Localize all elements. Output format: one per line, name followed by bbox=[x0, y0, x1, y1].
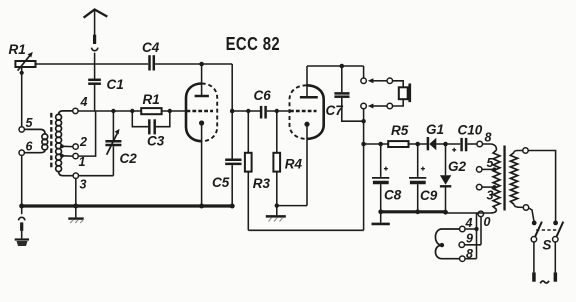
svg-text:4: 4 bbox=[80, 95, 88, 109]
svg-text:G1: G1 bbox=[426, 122, 444, 137]
chassis ground (PSU) bbox=[372, 213, 390, 224]
svg-text:R4: R4 bbox=[285, 157, 303, 172]
wire winding bottom to terminal 0 bbox=[478, 210, 497, 214]
node 4 bbox=[73, 95, 88, 114]
svg-text:3: 3 bbox=[80, 178, 87, 192]
wire node1 to grid rail bbox=[78, 111, 95, 156]
capacitor C5 bbox=[212, 111, 242, 205]
transformer core bbox=[503, 146, 505, 211]
svg-text:G2: G2 bbox=[448, 159, 467, 174]
wire bus to terminal 0 bbox=[446, 212, 479, 214]
jack lower terminal bbox=[361, 103, 367, 109]
svg-text:S: S bbox=[542, 238, 551, 253]
svg-text:R1: R1 bbox=[9, 42, 26, 57]
wire jack lower to rail bbox=[361, 109, 366, 231]
resistor R1 (grid leak) bbox=[130, 92, 172, 114]
earth symbol bbox=[15, 240, 29, 247]
earphone bbox=[393, 81, 412, 106]
svg-text:2: 2 bbox=[79, 135, 87, 149]
node 6 bbox=[19, 140, 34, 156]
wire top feedback rail bbox=[36, 64, 233, 111]
svg-text:4: 4 bbox=[465, 216, 473, 230]
coil core (dashed) bbox=[50, 113, 52, 170]
U1b anode bbox=[300, 66, 318, 97]
earth connection (plug and socket) bbox=[19, 206, 25, 238]
wire cathode2 to ground bbox=[275, 126, 307, 208]
antenna bbox=[84, 10, 108, 80]
svg-text:C8: C8 bbox=[384, 188, 402, 203]
mains ~ symbol bbox=[540, 281, 549, 284]
svg-text:5: 5 bbox=[26, 116, 34, 130]
node anode1 junction bbox=[230, 109, 235, 114]
resistor R4 (grid leak 2) bbox=[273, 109, 302, 215]
U1a cathode bbox=[199, 120, 204, 204]
U1b grid (dashed) bbox=[290, 110, 317, 112]
variable capacitor C2 bbox=[79, 109, 138, 176]
svg-text:5: 5 bbox=[487, 156, 495, 170]
strap loops 4-9-8 bbox=[435, 229, 459, 259]
svg-text:R1: R1 bbox=[143, 92, 160, 107]
tap 3 bbox=[476, 184, 496, 202]
main ground bus bbox=[19, 204, 235, 209]
svg-text:C9: C9 bbox=[420, 188, 438, 203]
transformer T1 terminal 8 (top) bbox=[477, 131, 497, 151]
svg-text:6: 6 bbox=[26, 140, 34, 154]
coil L1 primary (antenna winding 5-6) bbox=[24, 129, 47, 152]
capacitor C7 bbox=[326, 64, 364, 121]
capacitor C3 (parallel with grid leak) bbox=[132, 111, 170, 149]
ground bus (PSU) bbox=[378, 209, 448, 214]
secondary top lead bbox=[514, 148, 556, 223]
wire anode2 rail bbox=[307, 66, 364, 78]
switch S pole 2 bbox=[553, 221, 564, 243]
node 1 (tap strapped to grid line) bbox=[60, 153, 86, 169]
wire DC rail bbox=[364, 143, 477, 145]
svg-text:C7: C7 bbox=[326, 103, 345, 118]
phone plug upper (arrow) bbox=[368, 78, 393, 84]
triode U1b (ECC82 second half) envelope bbox=[290, 85, 324, 139]
terminal 8 (mains tap) bbox=[460, 247, 477, 261]
jack upper terminal bbox=[361, 78, 367, 84]
U1b cathode bbox=[304, 122, 309, 127]
capacitor C4 bbox=[142, 40, 160, 71]
tap 5 bbox=[476, 156, 496, 172]
mains pin 1 bbox=[532, 242, 536, 282]
diode G1 (rectifier) bbox=[426, 122, 444, 150]
capacitor C1 bbox=[88, 77, 124, 111]
svg-text:9: 9 bbox=[466, 232, 473, 246]
capacitor C9 (electrolytic) bbox=[409, 142, 438, 211]
chassis ground (main bus) bbox=[68, 206, 83, 223]
resistor R5 (filter) bbox=[388, 123, 409, 147]
diode G2 (stabilizer) bbox=[440, 142, 467, 212]
chassis ground (R4 / cathode2) bbox=[266, 216, 286, 221]
svg-text:C3: C3 bbox=[147, 134, 165, 149]
svg-text:3: 3 bbox=[487, 189, 494, 203]
triode U1a (ECC82 first half) envelope bbox=[186, 84, 217, 142]
svg-text:R3: R3 bbox=[253, 176, 271, 191]
svg-text:C2: C2 bbox=[120, 151, 138, 166]
node 5 bbox=[19, 116, 34, 132]
svg-text:C1: C1 bbox=[107, 77, 124, 92]
svg-text:C4: C4 bbox=[142, 40, 160, 55]
phone plug lower (arrow) bbox=[368, 103, 393, 109]
capacitor C8 (electrolytic) bbox=[372, 142, 402, 211]
wire node6 to ground bus bbox=[21, 155, 23, 204]
wire selector vertical bbox=[476, 213, 478, 259]
secondary bottom lead bbox=[514, 204, 534, 222]
wire grid rail bbox=[78, 110, 186, 112]
wire pot to node 5 bbox=[20, 67, 24, 127]
U1a grid (dashed) bbox=[187, 110, 214, 112]
terminal 9 bbox=[459, 217, 481, 248]
wire B+ feed to R3 bbox=[248, 229, 363, 231]
mains pin 2 bbox=[554, 242, 558, 282]
switch S pole 1 bbox=[531, 221, 542, 243]
wire node3 to bus bbox=[75, 178, 77, 204]
transformer secondary winding bbox=[510, 153, 517, 205]
terminal 4 bbox=[460, 216, 479, 232]
U1a anode bbox=[195, 62, 209, 96]
svg-text:R5: R5 bbox=[391, 123, 409, 138]
svg-text:C5: C5 bbox=[212, 175, 230, 190]
switch gang link (dashed) bbox=[536, 229, 558, 231]
capacitor C6 (coupling) bbox=[254, 88, 290, 119]
svg-text:ECC 82: ECC 82 bbox=[226, 33, 281, 54]
capacitor C10 bbox=[452, 123, 483, 152]
svg-text:8: 8 bbox=[466, 247, 473, 261]
transformer T1 primary winding bbox=[493, 150, 500, 210]
resistor R3 (anode load) bbox=[245, 109, 271, 231]
node 2 (unused tap) bbox=[60, 135, 87, 149]
resistor R1 (regeneration potentiometer) bbox=[9, 42, 36, 71]
wire anode1 to C6 bbox=[232, 110, 260, 112]
svg-text:1: 1 bbox=[79, 155, 86, 169]
coil L2 secondary (tuned winding 4-1-2-3) bbox=[56, 111, 73, 176]
node 3 bbox=[73, 173, 86, 192]
svg-text:0: 0 bbox=[484, 215, 491, 229]
svg-text:C6: C6 bbox=[254, 88, 272, 103]
svg-text:C10: C10 bbox=[458, 123, 483, 138]
svg-text:8: 8 bbox=[485, 131, 492, 145]
terminal 0 bbox=[478, 211, 490, 229]
